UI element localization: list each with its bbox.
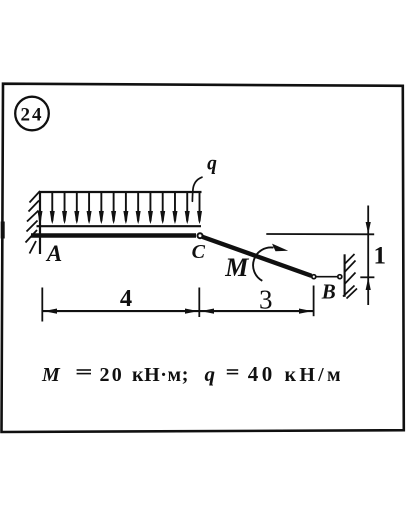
svg-text:1: 1: [373, 243, 386, 270]
svg-text:A: A: [45, 241, 62, 266]
svg-text:M: M: [41, 364, 61, 386]
svg-text:q: q: [205, 362, 216, 386]
svg-text:кН/м: кН/м: [285, 364, 344, 386]
svg-text:4: 4: [120, 285, 132, 312]
svg-text:40: 40: [248, 362, 276, 386]
svg-text:кН·м;: кН·м;: [132, 364, 189, 386]
svg-text:24: 24: [21, 104, 44, 125]
svg-text:20: 20: [100, 364, 124, 386]
svg-text:C: C: [192, 241, 206, 263]
svg-text:M: M: [224, 253, 249, 282]
svg-text:B: B: [321, 279, 336, 303]
svg-text:q: q: [207, 153, 217, 174]
svg-text:3: 3: [259, 284, 273, 314]
